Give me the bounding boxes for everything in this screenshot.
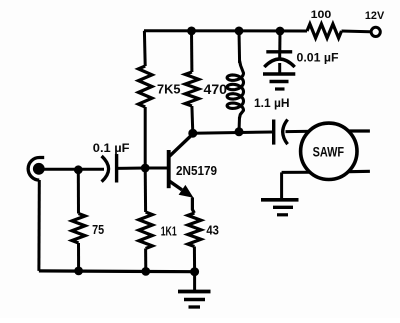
capacitor C3 curved plate bbox=[264, 59, 294, 67]
wire SAWF output top bbox=[344, 129, 370, 132]
label FL1 SAWF bbox=[313, 144, 345, 159]
label Q1 type 2N5179 bbox=[176, 163, 217, 178]
node base junction bbox=[141, 164, 150, 173]
svg-text:12V: 12V bbox=[365, 10, 385, 22]
capacitor C1 0.1uF curved plate bbox=[102, 156, 109, 182]
svg-text:2N5179: 2N5179 bbox=[176, 163, 217, 178]
wire bypass cap lead bbox=[278, 31, 281, 51]
svg-text:100: 100 bbox=[311, 9, 332, 21]
label R5 value 43 bbox=[206, 224, 219, 238]
wire 7K5 to base node bbox=[144, 107, 147, 168]
wire inductor top lead bbox=[238, 31, 242, 63]
inductor L1 1.1uH coil bbox=[227, 61, 243, 118]
transistor Q1 base bar bbox=[167, 150, 171, 188]
resistor R2 470 bbox=[185, 72, 199, 106]
label R3 value 75 bbox=[92, 223, 104, 237]
wire 75 upper lead bbox=[77, 170, 80, 214]
svg-text:1.1 µH: 1.1 µH bbox=[254, 96, 290, 110]
ground main bbox=[178, 292, 211, 308]
wire 470 to collector node bbox=[190, 106, 194, 133]
node main ground junction bbox=[190, 267, 199, 276]
label R4 value 1K1 bbox=[161, 225, 177, 239]
transistor Q1 collector lead bbox=[170, 134, 194, 157]
node 1K1 bottom bbox=[141, 267, 150, 276]
wire cap to base bbox=[117, 167, 146, 170]
wire base lead bbox=[145, 167, 167, 170]
wire inductor bottom lead bbox=[238, 117, 242, 132]
wire collector node to coupling cap bbox=[193, 132, 272, 133]
svg-text:75: 75 bbox=[92, 223, 104, 237]
wire emitter to 43 bbox=[192, 198, 194, 214]
svg-text:43: 43 bbox=[206, 224, 219, 238]
label C1 value 0.1 uF bbox=[93, 141, 130, 155]
terminal 12V supply bbox=[371, 27, 380, 36]
wire ground stem bbox=[193, 272, 196, 292]
ground SAWF bbox=[261, 200, 299, 215]
input connector center pin bbox=[33, 163, 45, 175]
filter FL1 SAWF body bbox=[301, 123, 357, 179]
wire 1K1 to ground rail bbox=[144, 249, 147, 272]
wire left bias column upper bbox=[143, 31, 147, 66]
label R1 value 7K5 bbox=[157, 82, 181, 97]
resistor R5 43 bbox=[188, 213, 201, 247]
svg-text:SAWF: SAWF bbox=[313, 144, 345, 159]
resistor R4 1K1 bbox=[139, 212, 153, 249]
wire bottom ground rail bbox=[39, 269, 195, 273]
capacitor C3 0.01uF top plate bbox=[266, 50, 292, 53]
label supply 12V bbox=[365, 10, 385, 22]
wire base node to 1K1 bbox=[144, 168, 147, 212]
wire input to coupling cap bbox=[39, 168, 104, 171]
capacitor C1 0.1uF flat plate bbox=[115, 154, 118, 183]
capacitor C3 center stub bbox=[278, 52, 281, 61]
label R2 value 470 bbox=[204, 82, 228, 97]
label R6 value 100 bbox=[311, 9, 332, 21]
label L1 value 1.1 uH bbox=[254, 96, 290, 110]
svg-text:0.1 µF: 0.1 µF bbox=[93, 141, 130, 155]
svg-text:0.01 µF: 0.01 µF bbox=[297, 50, 339, 64]
capacitor C2 coupling curved plate bbox=[283, 120, 288, 145]
label C3 value 0.01 uF bbox=[297, 50, 339, 64]
input connector J1 shell bbox=[28, 157, 44, 180]
resistor R1 7K5 bbox=[138, 66, 152, 107]
svg-text:7K5: 7K5 bbox=[157, 82, 181, 97]
node inductor top bbox=[235, 27, 244, 36]
resistor R3 75 bbox=[72, 214, 85, 244]
node collector junction bbox=[188, 129, 197, 138]
node 470 top bbox=[187, 27, 196, 36]
node 75 top junction bbox=[74, 165, 83, 174]
wire connector shell drop bbox=[37, 180, 40, 271]
capacitor C2 coupling flat plate bbox=[272, 120, 275, 145]
transistor Q1 emitter lead with arrow bbox=[170, 181, 194, 198]
resistor R6 100 bbox=[307, 24, 342, 38]
wire 470 column upper bbox=[190, 31, 193, 72]
svg-text:470: 470 bbox=[204, 82, 228, 97]
node bypass cap top bbox=[276, 27, 285, 36]
node 75 bottom bbox=[74, 267, 83, 276]
wire SAWF output bottom bbox=[342, 170, 370, 174]
wire cap to ground bbox=[278, 63, 281, 74]
svg-text:1K1: 1K1 bbox=[161, 225, 177, 239]
wire 43 to ground node bbox=[193, 247, 196, 272]
wire 75 lower lead bbox=[77, 243, 80, 271]
wire top supply rail bbox=[144, 31, 370, 32]
wire cap to SAWF input bbox=[286, 130, 315, 133]
ground bypass cap bbox=[263, 74, 295, 89]
node inductor bottom bbox=[235, 127, 244, 136]
wire SAWF ground arm bbox=[282, 172, 315, 199]
